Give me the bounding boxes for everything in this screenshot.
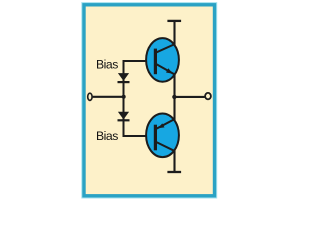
svg-text:Bias: Bias: [96, 129, 118, 143]
wire output node to output terminal: [175, 96, 205, 98]
svg-text:Bias: Bias: [96, 58, 118, 72]
power rail positive: [167, 20, 181, 22]
wire bias diode chain vertical: [123, 61, 125, 136]
wire diode chain top to Q1 base: [124, 61, 157, 62]
wire output node to Q2 emitter: [173, 97, 175, 121]
node input junction: [122, 95, 126, 99]
wire Q2 collector to negative rail: [173, 150, 175, 172]
diode D2: [118, 112, 130, 122]
diode D1: [118, 73, 130, 83]
power rail negative: [167, 171, 181, 173]
wire diode chain bottom to Q2 base: [124, 135, 157, 136]
wire Q1 collector to positive rail: [173, 21, 175, 46]
wire Q1 emitter to output node: [173, 73, 175, 97]
wire input to bias junction: [93, 96, 124, 98]
output terminal: [205, 93, 211, 99]
transistor Q2: [146, 114, 179, 158]
input terminal: [88, 93, 92, 100]
node output junction: [172, 95, 176, 99]
transistor Q1: [146, 38, 179, 82]
